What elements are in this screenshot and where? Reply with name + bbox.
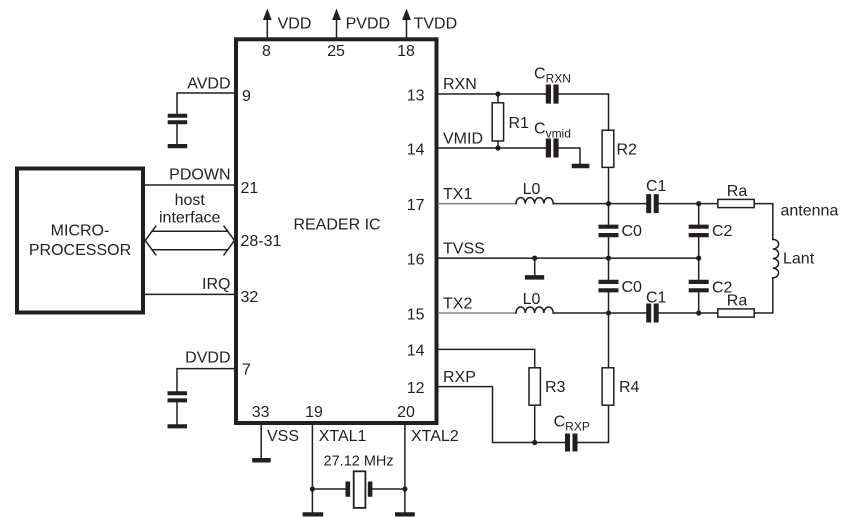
resistor Ra TX2 [718,309,754,317]
capacitor C2 bottom [689,282,709,290]
node XTAL2 junction [402,486,407,491]
svg-text:VDD: VDD [278,15,312,32]
wire TX2 pin 15 gray [439,312,517,314]
svg-text:12: 12 [407,380,425,397]
svg-text:Ra: Ra [727,293,748,310]
resistor R1 [497,94,499,148]
svg-text:27.12 MHz: 27.12 MHz [324,454,394,470]
svg-text:13: 13 [407,87,425,104]
svg-text:TX1: TX1 [443,186,472,203]
svg-text:32: 32 [241,289,259,306]
resistor R2 [602,130,614,167]
svg-text:IRQ: IRQ [202,276,230,293]
ground TVSS [525,275,544,280]
svg-text:PDOWN: PDOWN [169,166,230,183]
svg-text:TX2: TX2 [443,296,472,313]
wire R3 to RXP node [534,405,536,442]
wire TX2 to C1 [553,312,646,314]
ground VSS [252,458,271,463]
wire RXP pin 12 [439,387,566,443]
capacitor AVDD decoupling [168,116,188,123]
wire TVSS to C2 bottom [698,258,700,280]
svg-text:14: 14 [407,141,425,158]
svg-text:28-31: 28-31 [241,233,282,250]
svg-text:L0: L0 [523,291,541,308]
svg-text:C1: C1 [646,178,667,195]
capacitor C0 top [599,227,619,235]
wire TX1 pin 17 gray [439,203,517,205]
node RXP junction [532,440,537,445]
inductor L0 TX1 [516,198,553,204]
svg-text:C1: C1 [646,290,667,307]
wire C2 bottom to TX2 [698,292,700,313]
svg-text:XTAL2: XTAL2 [411,428,459,445]
wire C1 to Ra TX1 [659,203,718,205]
svg-text:RXN: RXN [443,76,477,93]
wire Ra to antenna top [754,204,773,240]
wire AVDD pin 9 [177,93,234,114]
svg-text:8: 8 [262,43,271,60]
resistor Ra TX1 [718,199,754,207]
svg-text:XTAL1: XTAL1 [319,428,367,445]
PVDD pin arrow [336,20,338,38]
svg-text:L0: L0 [523,181,541,198]
svg-text:MICRO-: MICRO- [51,223,110,240]
svg-text:RXP: RXP [443,369,476,386]
svg-text:AVDD: AVDD [187,75,230,92]
resistor R3 [529,368,540,405]
svg-text:C2: C2 [712,223,733,240]
wire TVSS pin 16 [439,257,699,259]
node TVSS bus junction [606,256,611,261]
svg-text:READER IC: READER IC [293,216,380,233]
wire C0 bottom to TX2 [608,292,610,313]
wire C1 to Ra TX2 [659,312,718,314]
inductor L0 TX2 [516,307,553,313]
microprocessor box [17,169,143,313]
svg-text:15: 15 [407,306,425,323]
svg-text:18: 18 [397,43,415,60]
node XTAL1 junction [310,486,315,491]
svg-text:VMID: VMID [443,131,483,148]
svg-text:R2: R2 [617,142,638,159]
VDD pin arrow [266,20,268,38]
svg-text:TVSS: TVSS [443,241,485,258]
svg-text:Ra: Ra [727,183,748,200]
wire RXN pin 13 [439,94,609,130]
capacitor CRXN [548,85,556,104]
ground XTAL2 [395,512,415,516]
svg-text:R3: R3 [545,379,566,396]
wire R2 to TX1 bus [608,167,610,203]
wire TVSS to C0 bottom [608,258,610,280]
wire C0 top to TVSS [608,237,610,258]
svg-text:PVDD: PVDD [346,15,390,32]
svg-text:19: 19 [305,404,323,421]
wire IRQ pin 32 [145,293,234,295]
wire bus TX2 to R4 [608,313,610,368]
wire PDOWN pin 21 [145,184,234,186]
capacitor Cvmid [548,139,556,158]
svg-text:C0: C0 [622,279,643,296]
svg-text:33: 33 [252,404,270,421]
svg-text:TVDD: TVDD [414,15,458,32]
wire TVSS ground stub [534,258,536,275]
svg-text:R1: R1 [509,115,530,132]
svg-text:14: 14 [407,343,425,360]
wire R4 to CRXP [578,405,609,442]
svg-text:C0: C0 [622,223,643,240]
wire C2 top to TVSS [698,237,700,258]
capacitor C1 TX1 [649,194,657,213]
svg-text:PROCESSOR: PROCESSOR [29,242,131,259]
wire DVDD pin 7 [177,369,234,391]
node TVSS C2 junction [696,256,701,261]
svg-text:Lant: Lant [783,251,815,268]
capacitor C2 top [689,227,709,235]
wire XTAL1 pin 19 [311,425,313,512]
wire bus TX1 to C0 top [608,204,610,225]
ground Cvmid [572,164,590,168]
capacitor C0 bottom [599,282,619,290]
node VMID-R1 junction [495,145,500,150]
wire pin 14 to R3 [439,349,535,367]
node TX1 C2 junction [696,201,701,206]
node TX1 bus junction [606,201,611,206]
host interface bus arrow [152,231,228,250]
svg-text:VSS: VSS [267,428,299,445]
reader IC box U1 [236,39,437,423]
node RXN-R1 junction [495,91,500,96]
node TX2 C2 junction [696,310,701,315]
svg-text:21: 21 [241,180,259,197]
node TX2 bus junction [606,310,611,315]
wire XTAL2 pin 20 [404,425,406,512]
svg-text:R4: R4 [619,379,640,396]
svg-text:host: host [175,192,206,209]
ground AVDD [168,144,188,148]
svg-text:antenna: antenna [781,202,839,219]
resistor R4 [602,368,614,405]
ground DVDD [168,424,188,428]
capacitor CRXP [568,434,576,452]
capacitor DVDD decoupling [168,393,188,400]
svg-text:interface: interface [159,209,220,226]
svg-text:20: 20 [397,404,415,421]
wire TX1 to C1 [553,203,646,205]
wire Ra to antenna bottom [754,278,773,313]
wire VSS pin 33 [260,425,262,458]
svg-text:25: 25 [327,43,345,60]
svg-text:DVDD: DVDD [185,349,230,366]
ground XTAL1 [303,512,324,516]
capacitor C1 TX2 [649,304,657,323]
svg-text:16: 16 [407,251,425,268]
crystal X1 27.12 MHz [312,488,405,490]
node TVSS ground junction [532,256,537,261]
svg-text:9: 9 [242,88,251,105]
wire TX1 to C2 top [698,204,700,225]
svg-text:17: 17 [407,197,425,214]
TVDD pin arrow [406,20,408,38]
inductor Lant [773,239,779,277]
wire VMID pin 14 [439,148,581,164]
svg-text:7: 7 [242,362,251,379]
